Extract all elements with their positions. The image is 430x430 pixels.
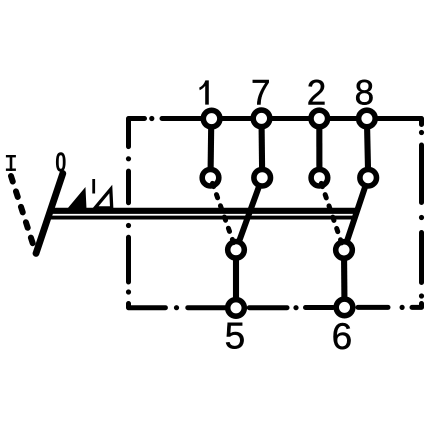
fixed contact under terminal 8 xyxy=(360,169,377,186)
enclosure border: right side dash 2 xyxy=(419,233,424,283)
terminal 2 contact circle xyxy=(311,110,328,127)
wire: pole 2 pivot to terminal 6 xyxy=(341,250,348,307)
svg-text:8: 8 xyxy=(355,74,374,113)
switch enclosure dash-dot border: top-left corner xyxy=(129,119,145,147)
enclosure border: left side dot 2 xyxy=(126,223,131,228)
terminal 6 contact circle xyxy=(336,299,353,316)
enclosure border: left side dash 2 xyxy=(126,237,131,282)
actuator bar lower line xyxy=(48,216,355,220)
terminal 8 contact circle xyxy=(359,110,376,127)
contact arm pole 2 (closed to contact 8, solid) xyxy=(344,178,368,250)
actuator bar upper line xyxy=(49,208,358,214)
enclosure border: bottom dash to terminal 6 xyxy=(306,305,334,310)
enclosure border: right side dot 3 xyxy=(419,293,424,298)
enclosure border: left side dash 1 xyxy=(126,171,131,203)
toggle lever, alternate position I (dashed) xyxy=(11,176,36,253)
toggle lever, position 0 (solid) xyxy=(36,174,63,254)
wire: terminal 2 to fixed contact xyxy=(316,119,322,178)
svg-text:7: 7 xyxy=(251,74,270,113)
fixed contact under terminal 7 xyxy=(254,169,271,186)
label terminal 1 xyxy=(199,80,209,104)
terminal 5 contact circle xyxy=(228,300,245,317)
contact arm pole 1 (closed to contact 7, solid) xyxy=(236,178,262,250)
label switch position I xyxy=(6,155,16,171)
wire: terminal 1 to fixed contact xyxy=(207,119,214,178)
enclosure border: bottom-right corner xyxy=(412,304,422,308)
enclosure border: right side dot 1 xyxy=(419,130,424,135)
svg-text:5: 5 xyxy=(225,316,246,357)
enclosure border: bottom dash right of terminal 5 xyxy=(249,305,287,310)
svg-text:2: 2 xyxy=(307,74,326,113)
enclosure border: right side dash 1 xyxy=(419,145,424,203)
pole 1 pivot contact xyxy=(228,242,245,259)
enclosure border: bottom dot 1 xyxy=(174,305,179,310)
svg-text:6: 6 xyxy=(332,316,353,357)
fixed contact under terminal 1 xyxy=(202,169,219,186)
pole 2 pivot contact xyxy=(336,242,353,259)
enclosure border: left side dot 3 xyxy=(126,289,131,294)
enclosure border: bottom dot 2 xyxy=(293,305,298,310)
wire: terminal 8 to fixed contact xyxy=(367,119,368,178)
enclosure border: top solid line with right corner xyxy=(162,119,422,125)
enclosure border: bottom dash to terminal 5 xyxy=(188,305,225,310)
enclosure border: left side dot 1 xyxy=(126,156,131,161)
terminal 7 contact circle xyxy=(253,110,270,127)
terminal 1 contact circle xyxy=(203,110,220,127)
contact arm pole 1 alternate position (dashed, to contact 1) xyxy=(211,178,235,245)
svg-text:0: 0 xyxy=(55,147,66,178)
enclosure border: bottom-left corner xyxy=(129,304,166,308)
fixed contact under terminal 2 xyxy=(311,169,328,186)
contact arm pole 2 alternate position (dashed, to contact 2) xyxy=(319,178,342,245)
detent ramp cam (outline triangle) xyxy=(95,189,112,208)
wire: terminal 7 to fixed contact xyxy=(258,119,265,178)
wire: pole 1 pivot to terminal 5 xyxy=(233,250,239,308)
enclosure border: bottom dot 3 xyxy=(400,305,405,310)
enclosure border: top dot xyxy=(149,116,154,121)
enclosure border: bottom dash right of terminal 6 xyxy=(358,305,388,310)
position mark tick xyxy=(92,179,95,194)
enclosure border: right side dot 2 xyxy=(419,215,424,220)
detent ramp cam (filled triangle) xyxy=(69,189,86,208)
